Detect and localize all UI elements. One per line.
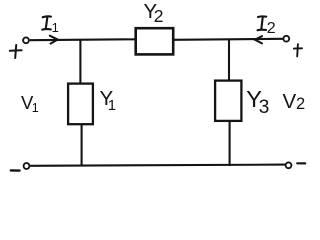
- wire vertical Y3 bottom: [229, 121, 231, 166]
- minus sign bottom-left: [11, 169, 20, 172]
- admittance Y3 (right shunt box): [215, 81, 241, 121]
- arrow I2 (pointing left): [255, 36, 262, 43]
- svg-text:2: 2: [267, 20, 276, 37]
- svg-text:3: 3: [259, 97, 270, 118]
- svg-text:V: V: [283, 90, 297, 113]
- plus sign top-left: [10, 45, 22, 58]
- terminal bottom-right: [286, 162, 292, 168]
- wire top-right (Y2 box to right terminal): [174, 39, 283, 40]
- label I1: [42, 16, 51, 29]
- wire vertical Y3 top: [228, 39, 230, 81]
- wire vertical Y1 top: [79, 40, 81, 84]
- svg-text:1: 1: [52, 20, 59, 35]
- svg-text:1: 1: [32, 101, 39, 115]
- wire top-left (terminal to Y2 box): [30, 38, 135, 41]
- svg-text:2: 2: [296, 95, 305, 113]
- wire vertical Y1 bottom: [81, 124, 83, 167]
- terminal top-right: [283, 36, 289, 42]
- svg-text:2: 2: [154, 6, 164, 26]
- svg-text:1: 1: [108, 97, 116, 114]
- wire bottom: [30, 165, 285, 166]
- minus sign bottom-right: [297, 162, 305, 164]
- terminal top-left: [23, 37, 29, 43]
- label I2: [258, 16, 267, 30]
- admittance Y2 (series box): [136, 28, 174, 54]
- terminal bottom-left: [24, 163, 30, 169]
- arrow I1 (pointing right): [50, 36, 58, 44]
- admittance Y1 (left shunt box): [68, 84, 93, 125]
- plus sign top-right: [294, 44, 302, 56]
